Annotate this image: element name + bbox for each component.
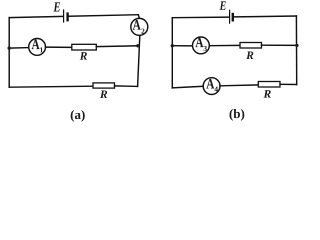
caption (b) [230,109,245,121]
wire: left vertical (a) [8,18,10,88]
wire: middle right segment resistor to right vertical (a) [96,45,138,48]
node: middle-left junction (b) [171,44,174,47]
wire: top left segment to battery (a) [9,16,63,17]
battery E cell long plate (a) [63,10,65,22]
label A2 [133,20,141,30]
wire: bottom left segment (b) [172,86,203,88]
label R bottom (a) [100,90,107,98]
wire: middle left segment (b) [172,45,192,47]
wire: middle right segment (b) [262,44,297,46]
resistor R box bottom (b) [258,82,280,88]
wire: middle left segment (a) [9,47,29,50]
battery E cell short thick plate (b) [232,14,234,20]
battery E cell long plate (b) [229,10,231,23]
caption (a) [71,110,85,122]
label R bottom (b) [264,90,271,98]
node: middle-left junction (a) [8,46,11,49]
wire: top left segment to battery (b) [172,16,229,19]
wire: middle segment A3 to resistor (b) [209,44,240,46]
label A3 [195,38,203,48]
label A4 [206,79,214,89]
resistor R box bottom (a) [93,83,115,88]
wire: bottom left segment (a) [9,86,93,87]
label A1 [32,40,40,50]
label R middle (b) [246,51,253,59]
wire: middle segment A1 to resistor (a) [46,46,72,48]
node: middle-right junction (a) [136,44,139,47]
ammeter A2 circle [131,18,148,35]
resistor R box middle (b) [240,43,262,49]
ammeter A4 circle [203,78,220,95]
node: middle-right junction (b) [295,44,298,47]
wire: right vertical below A2 (a) [138,36,140,86]
wire: corner down to ammeter A2 (a) [138,15,139,19]
ammeter A3 circle [193,37,210,54]
wire: bottom segment A4 to resistor (b) [220,84,258,87]
label R middle (a) [80,52,87,60]
wire: top right segment battery to corner (a) [69,15,138,17]
label E (a) [53,2,60,11]
battery E cell short thick plate (a) [66,14,68,21]
wire: top right segment battery to corner (b) [234,15,296,18]
wire: bottom right segment (a) [115,85,138,88]
wire: right vertical (b) [295,16,297,85]
resistor R box middle (a) [72,44,97,50]
label E (b) [220,1,226,10]
wire: left vertical (b) [171,18,173,88]
wire: bottom right segment (b) [280,83,297,85]
ammeter A1 circle [29,39,46,56]
